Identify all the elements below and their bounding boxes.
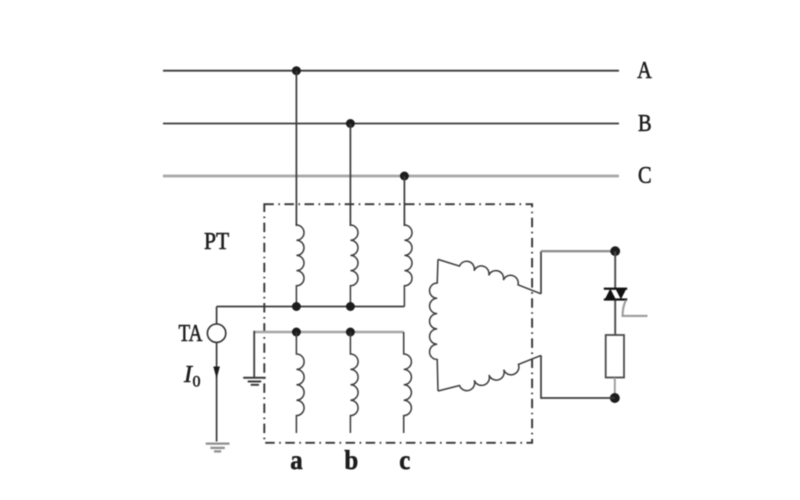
winding PT secondary phase b bbox=[350, 332, 358, 433]
wire tap phase B bbox=[349, 124, 351, 227]
svg-text:TA: TA bbox=[179, 320, 203, 347]
svg-text:a: a bbox=[290, 445, 302, 475]
bus A bbox=[163, 70, 619, 72]
ground below TA bbox=[206, 444, 230, 452]
node on bus C bbox=[400, 172, 409, 181]
bus C bbox=[163, 175, 619, 178]
wire primary neutral bus bbox=[217, 306, 405, 308]
wire node to triac bbox=[614, 251, 616, 288]
ground secondary neutral bbox=[243, 378, 266, 385]
wire secondary neutral bus bbox=[254, 331, 404, 334]
triac VS bbox=[604, 288, 627, 301]
node on bus A bbox=[292, 66, 301, 75]
node secondary junction a bbox=[292, 328, 301, 337]
winding open-delta left edge bbox=[430, 259, 438, 391]
winding PT primary phase C bbox=[404, 225, 412, 307]
winding open-delta bottom edge bbox=[438, 355, 541, 391]
wire tap phase C bbox=[403, 176, 405, 226]
node secondary junction b bbox=[346, 328, 355, 337]
PT enclosure dash-dot box bbox=[264, 204, 532, 443]
svg-text:A: A bbox=[637, 56, 652, 83]
winding PT secondary phase c bbox=[404, 332, 412, 433]
node bottom right bbox=[610, 393, 620, 403]
svg-text:C: C bbox=[638, 161, 652, 188]
wire delta upper terminal riser bbox=[540, 251, 542, 294]
svg-text:B: B bbox=[638, 109, 652, 136]
current transformer TA bbox=[207, 324, 225, 342]
svg-text:c: c bbox=[399, 445, 410, 475]
winding PT primary phase A bbox=[296, 225, 304, 307]
wire to top node bbox=[541, 250, 615, 252]
winding PT secondary phase a bbox=[296, 332, 304, 433]
wire TA to ground bbox=[216, 342, 218, 441]
winding PT primary phase B bbox=[350, 225, 358, 307]
wire resistor to bottom node bbox=[614, 378, 616, 395]
wire bottom node to delta bbox=[541, 355, 615, 398]
wire tap phase A bbox=[295, 71, 297, 226]
node on bus B bbox=[346, 119, 355, 128]
bus B bbox=[163, 123, 619, 125]
wire secondary neutral to ground bbox=[253, 331, 255, 377]
arrow I0 direction bbox=[213, 367, 220, 379]
node top right bbox=[610, 246, 620, 256]
svg-text:PT: PT bbox=[204, 228, 229, 254]
resistor R bbox=[606, 335, 624, 378]
node neutral junction b bbox=[346, 302, 355, 311]
wire triac to resistor bbox=[614, 300, 616, 335]
winding open-delta top edge bbox=[438, 259, 541, 293]
svg-text:b: b bbox=[344, 445, 358, 475]
node neutral junction a bbox=[292, 302, 301, 311]
wire triac gate bbox=[623, 300, 648, 316]
wire neutral to TA bbox=[216, 307, 218, 325]
